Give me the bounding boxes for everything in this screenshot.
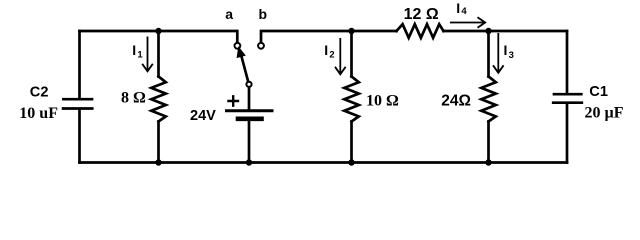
resistor 8 ohm (vertical) <box>151 77 166 122</box>
wire right edge lower (C1 to bottom rail) <box>566 104 569 162</box>
wire top-left rail with stub to contact a <box>80 31 238 43</box>
wire left edge lower (C2 to bottom rail) <box>78 110 81 163</box>
wire left edge upper (to C2) <box>78 31 81 98</box>
capacitor C2 plates <box>63 99 92 108</box>
svg-text:8 Ω: 8 Ω <box>121 90 146 107</box>
junction dot bottom of 24-ohm branch <box>485 159 491 165</box>
capacitor C1 plates <box>553 94 582 103</box>
svg-text:10 uF: 10 uF <box>19 105 58 122</box>
resistor 24 ohm (vertical) <box>481 77 496 122</box>
junction dot top of 24-ohm branch <box>485 28 491 34</box>
svg-text:C2: C2 <box>30 84 49 100</box>
wire branch 8-ohm upper <box>157 31 160 77</box>
current arrow I1 <box>142 37 153 72</box>
svg-text:a: a <box>225 6 233 22</box>
junction dot bottom of 8-ohm branch <box>155 159 161 165</box>
battery plus sign <box>229 96 239 105</box>
junction dot top of 8-ohm branch <box>155 28 161 34</box>
svg-text:24Ω: 24Ω <box>441 93 471 110</box>
battery 24V positive long plate <box>227 109 273 112</box>
current arrow I2 <box>335 38 346 74</box>
wire top-middle rail from contact b <box>261 31 397 43</box>
wire branch 10-ohm lower <box>350 122 353 163</box>
switch blade arrowhead <box>237 47 245 57</box>
wire battery to bottom rail <box>248 121 251 163</box>
current arrow I4 <box>450 17 485 27</box>
junction dot bottom of 10-ohm branch <box>348 159 354 165</box>
wire bottom rail <box>80 161 568 164</box>
wire switch pivot to battery <box>248 87 251 110</box>
junction dot bottom of battery branch <box>246 159 252 165</box>
wire branch 10-ohm upper <box>350 31 353 77</box>
wire right edge upper (to C1) <box>566 31 569 93</box>
resistor 12 ohm (horizontal, top rail) <box>397 24 444 38</box>
svg-text:12 Ω: 12 Ω <box>404 6 439 23</box>
svg-text:24V: 24V <box>190 108 216 124</box>
switch contact node b <box>258 43 264 49</box>
wire branch 24-ohm lower <box>487 122 490 163</box>
junction dot top of 10-ohm branch <box>348 28 354 34</box>
wire branch 24-ohm upper <box>487 31 490 77</box>
svg-text:10 Ω: 10 Ω <box>366 93 399 110</box>
switch pivot node <box>246 82 251 87</box>
resistor 10 ohm (vertical) <box>344 77 359 122</box>
svg-text:C1: C1 <box>589 84 608 100</box>
wire branch 8-ohm lower <box>157 122 160 163</box>
wire top-right rail <box>444 30 568 33</box>
battery 24V negative short plate <box>238 117 262 122</box>
current arrow I3 <box>493 33 504 73</box>
switch contact node a <box>235 43 241 49</box>
svg-text:b: b <box>259 6 268 22</box>
svg-text:20 µF: 20 µF <box>585 105 624 122</box>
switch blade <box>242 57 249 83</box>
